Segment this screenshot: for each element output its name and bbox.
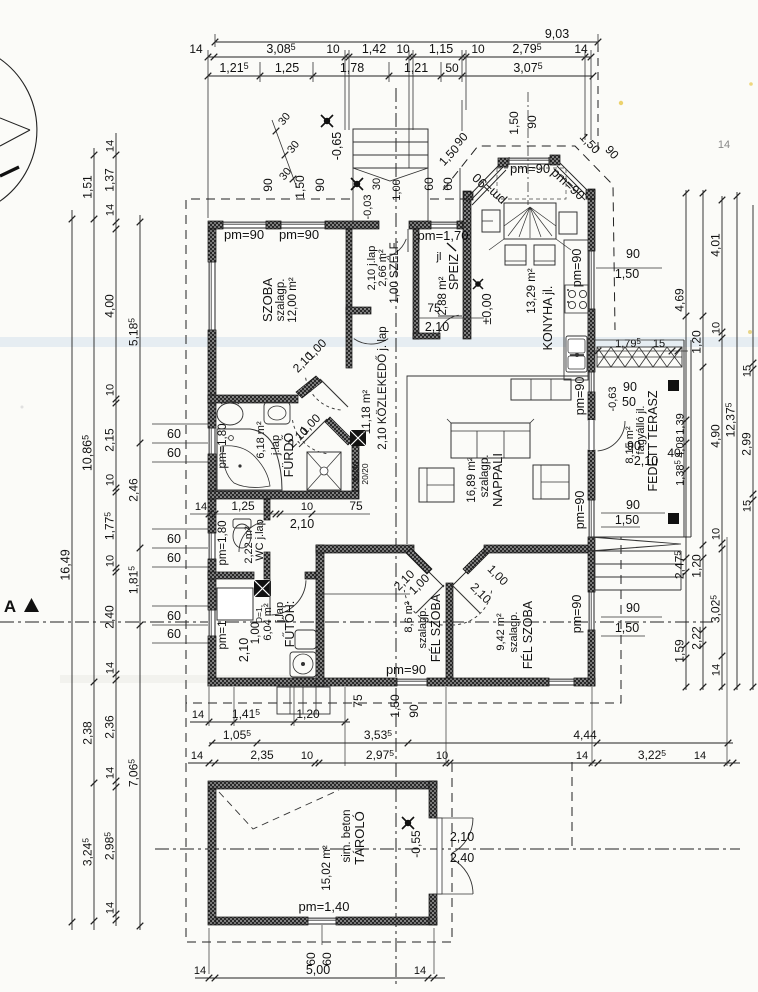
svg-text:14: 14 [195,501,207,513]
svg-text:1,39: 1,39 [675,413,687,434]
window nappali right [588,500,595,537]
wall furdo bottom [208,491,359,499]
window szoba top-2 [281,221,325,229]
svg-text:10: 10 [105,555,117,567]
svg-text:14: 14 [711,664,723,676]
window storage bottom [308,917,336,925]
bay axis line [527,92,529,205]
window szoba top-1 [223,221,266,229]
door szelf-hall [354,339,388,344]
dim terasz top [595,350,688,352]
wall wc right [264,499,270,520]
svg-text:16,89 m²: 16,89 m² [466,457,478,503]
wall konyha left [463,191,471,339]
svg-text:pm=90: pm=90 [570,595,584,634]
svg-text:pm=90: pm=90 [573,491,587,530]
svg-text:90: 90 [623,380,637,394]
svg-text:10: 10 [396,42,410,56]
wall szoba bottom [208,395,298,403]
svg-text:1,59: 1,59 [673,639,687,663]
wall furdo right [352,440,359,491]
svg-text:A: A [4,597,16,616]
svg-text:2,22: 2,22 [690,626,704,650]
wall wc bottom [208,572,254,579]
svg-text:2,38: 2,38 [81,721,95,745]
nappali floor boundary [407,376,588,544]
chair bottom1 [505,245,526,265]
svg-text:2,99: 2,99 [740,432,754,456]
svg-text:2,46: 2,46 [127,478,141,502]
wall szoba corner diag [296,376,322,398]
svg-text:szalagp.: szalagp. [417,608,429,649]
svg-text:60: 60 [441,177,455,191]
svg-text:±0,00: ±0,00 [480,293,494,324]
chimney kozlekedo [350,430,366,446]
svg-text:1,20: 1,20 [690,330,704,354]
svg-text:pm=90: pm=90 [386,662,426,677]
svg-text:pm=90: pm=90 [224,227,264,242]
terasz right edge [683,340,685,537]
chain right 2 [702,190,704,690]
svg-text:1,78: 1,78 [340,61,364,75]
svg-text:4,90: 4,90 [709,424,723,448]
scan artifact streak [0,337,758,347]
flower symbol kitchen [473,279,483,289]
svg-text:14: 14 [105,204,117,216]
section line storage door [155,848,740,850]
futoh basin [295,630,316,649]
wall left [208,229,216,262]
svg-text:WC j.lap: WC j.lap [254,519,266,561]
wall futoh right [316,545,324,686]
svg-text:20/20: 20/20 [360,463,370,485]
svg-text:4,44: 4,44 [573,728,597,742]
svg-text:4,00: 4,00 [103,294,117,318]
svg-text:14: 14 [105,902,117,914]
svg-text:pm=90: pm=90 [570,249,584,288]
svg-text:1,20: 1,20 [690,554,704,578]
wall speiz left [413,229,419,339]
wall storage left [208,789,216,925]
svg-text:FEDETT TERASZ: FEDETT TERASZ [646,390,660,491]
door speiz [438,315,459,339]
north arrow lines [0,118,30,130]
bay dashed floor [497,168,566,199]
eaves dashed bay [443,146,615,330]
svg-text:14: 14 [191,750,203,762]
bay window top [509,157,549,165]
svg-text:6,18 m²: 6,18 m² [255,421,267,459]
svg-text:16,49: 16,49 [59,549,73,580]
svg-text:14: 14 [194,965,206,977]
svg-text:pm=1,80: pm=1,80 [217,520,229,565]
svg-text:30: 30 [371,178,383,190]
svg-text:TÁROLÓ: TÁROLÓ [352,811,367,864]
window konyha right [588,251,595,309]
door futoh [271,580,306,615]
exterior steps back [277,687,330,714]
window futoh left [208,610,216,636]
chair left [482,210,500,232]
door terasz arc [598,421,625,451]
eaves dashed storage right [571,762,573,849]
svg-text:10: 10 [105,384,117,396]
washing machine [217,588,253,620]
svg-text:90: 90 [627,439,641,453]
row A ext lines [208,687,210,726]
svg-text:10: 10 [711,528,723,540]
svg-text:-0,55: -0,55 [409,830,423,858]
dim row walls [208,56,591,58]
svg-text:1,00: 1,00 [250,622,262,644]
svg-text:12,375: 12,375 [724,402,738,437]
svg-text:14: 14 [694,750,706,762]
svg-text:11,18 m²: 11,18 m² [361,390,373,435]
svg-text:SZOBA: SZOBA [260,278,275,322]
svg-text:2,35: 2,35 [250,748,274,762]
svg-text:10: 10 [105,474,117,486]
svg-text:pm=1,70: pm=1,70 [418,228,469,243]
wall top (szoba) [208,221,223,229]
window furdo left [208,428,216,454]
bay window left diag [466,164,506,205]
svg-text:2,15: 2,15 [103,428,117,452]
bay post right [586,190,595,199]
svg-text:2,10: 2,10 [290,517,314,531]
terasz post top [668,380,679,391]
wall felszoba diag left [406,548,432,574]
wall felszoba diag right [463,548,489,574]
door nappali-terasz [588,420,595,450]
svg-text:10: 10 [326,42,340,56]
svg-text:9,03: 9,03 [545,27,569,41]
svg-text:pm=1,40: pm=1,40 [299,899,350,914]
svg-text:1,20: 1,20 [296,707,320,721]
chain right 5 [752,205,754,690]
wall szelf bottom [346,307,371,314]
wall futoh top stub [305,572,316,579]
svg-text:15: 15 [742,365,754,377]
row C ext lines [445,687,447,766]
svg-text:8,6 m²: 8,6 m² [403,601,415,633]
shower [307,452,341,490]
svg-text:9,42 m²: 9,42 m² [495,613,507,651]
svg-text:-0,03: -0,03 [362,194,374,219]
kitchen sink [566,336,587,372]
svg-text:60: 60 [167,427,181,441]
svg-text:1,50: 1,50 [615,267,639,281]
svg-text:50: 50 [445,61,459,75]
svg-text:14: 14 [576,750,588,762]
svg-text:2,10: 2,10 [634,454,658,468]
kitchen stove [565,285,588,313]
svg-text:50: 50 [622,395,636,409]
svg-text:2,40: 2,40 [103,605,117,629]
sofa [451,423,530,458]
chair bottom2 [534,245,555,265]
wall felszoba top left [316,545,414,553]
terasz post bottom [668,513,679,524]
svg-text:10: 10 [711,322,723,334]
svg-text:1,50: 1,50 [507,111,521,135]
corner bathtub [217,429,282,490]
svg-text:FÉL SZOBA: FÉL SZOBA [520,600,535,669]
svg-text:10,865: 10,865 [81,435,95,471]
dashed top-right [597,44,599,150]
chain right 4 [736,192,738,690]
svg-text:15,02 m²: 15,02 m² [321,845,333,891]
chain right 3 [721,196,723,690]
svg-text:90: 90 [313,178,327,192]
svg-text:1,50: 1,50 [293,175,307,199]
wall storage bottom [216,917,308,925]
chain rooms [139,215,141,930]
svg-text:4,69: 4,69 [673,288,687,312]
window felszoba2 bottom [549,678,574,686]
svg-text:14: 14 [189,42,203,56]
svg-text:14: 14 [718,139,730,151]
furdo sink oval [217,403,243,425]
svg-text:60: 60 [167,627,181,641]
dim row 9,03 [215,41,598,43]
eaves dashed storage [186,703,452,942]
wc toilet [233,524,251,548]
door entry szelf [379,239,406,258]
dim wc width [190,513,370,515]
entry steps [353,129,428,168]
svg-text:90: 90 [626,498,640,512]
furdo washbasin [264,402,290,424]
compass circle [0,58,37,202]
flower symbol storage [402,817,414,829]
chain right 1 [685,190,687,690]
svg-text:13,29 m²: 13,29 m² [526,268,538,314]
section line vertical [395,88,397,988]
svg-text:1,50: 1,50 [388,694,402,718]
chain 10,86 [93,148,95,930]
svg-text:90: 90 [407,704,421,718]
svg-text:1,00 SZÉLF.: 1,00 SZÉLF. [388,240,401,303]
bay post left [464,192,473,200]
eaves dashed right-bottom [560,537,621,703]
wall szoba right [346,229,352,368]
flower symbol 2 [351,178,363,190]
svg-text:10: 10 [301,750,313,762]
svg-text:1,50: 1,50 [615,513,639,527]
dim row C [188,762,740,764]
svg-text:4,08: 4,08 [675,436,687,457]
svg-text:1,37: 1,37 [103,168,117,192]
door furdo diag [299,419,327,447]
eaves dashed entry [430,198,463,200]
svg-text:2,66 m²: 2,66 m² [377,249,389,287]
svg-text:KONYHA jl.: KONYHA jl. [541,286,555,351]
svg-text:14: 14 [414,965,426,977]
sideboard [511,379,571,400]
dim row openings [208,75,593,77]
svg-text:1,21: 1,21 [404,61,428,75]
svg-text:2,10: 2,10 [425,320,449,334]
wall storage right [429,781,437,818]
door felszoba right [452,585,480,613]
svg-text:pm=90: pm=90 [510,161,550,176]
svg-text:-0,65: -0,65 [330,132,344,161]
svg-text:jl: jl [436,251,442,263]
chain inner fine [115,133,117,926]
svg-text:NAPPALI: NAPPALI [490,453,505,507]
dim row storage [195,977,445,979]
coffee table [533,465,569,499]
svg-text:60: 60 [167,532,181,546]
armchair [419,468,454,502]
wall furdo diag [325,417,353,445]
eaves dashed left [186,199,560,703]
kitchen counter [564,240,588,380]
svg-text:2,10: 2,10 [450,830,474,844]
svg-text:14: 14 [192,709,204,721]
svg-text:15: 15 [742,500,754,512]
window szoba left [208,262,216,330]
svg-text:60: 60 [167,609,181,623]
svg-text:2,10: 2,10 [237,638,251,662]
chair right [559,212,577,234]
wall bottom [208,678,397,686]
svg-text:90: 90 [626,247,640,261]
svg-text:75: 75 [349,499,363,513]
svg-text:-0,63: -0,63 [607,386,619,411]
window konyha right2 [588,372,595,392]
diag dim 30s [272,120,297,188]
svg-text:1,00: 1,00 [391,179,403,200]
door felszoba left [416,585,444,613]
svg-text:szalagp.: szalagp. [508,612,520,653]
storage door leaves [452,818,473,853]
svg-text:5,00: 5,00 [306,963,330,977]
flower symbol 1 [321,115,333,127]
svg-text:75: 75 [427,301,441,315]
svg-text:90: 90 [525,115,539,129]
bay post top-right [550,155,560,165]
svg-text:2,40: 2,40 [450,851,474,865]
svg-text:1,50: 1,50 [615,621,639,635]
svg-text:FÜRDŐ: FÜRDŐ [281,433,296,478]
svg-text:2,10 KÖZLEKEDŐ j. lap: 2,10 KÖZLEKEDŐ j. lap [375,326,389,449]
window felszoba right [588,592,595,630]
wall storage top [208,781,437,789]
svg-text:90: 90 [261,178,275,192]
svg-text:14: 14 [574,42,588,56]
storage dashed roof lines [219,790,339,829]
section line A-A [0,621,712,623]
svg-text:60: 60 [422,177,436,191]
chain 16,49 [71,210,73,930]
svg-text:FÉL SZOBA: FÉL SZOBA [428,593,443,662]
dim extension lines [214,34,216,47]
svg-text:12,00 m²: 12,00 m² [287,277,299,323]
svg-text:14: 14 [105,662,117,674]
dining table [504,203,556,239]
bay window right diag [554,163,591,200]
svg-text:1,42: 1,42 [362,42,386,56]
svg-text:1,25: 1,25 [275,61,299,75]
svg-text:60: 60 [167,551,181,565]
bay post top-left [498,158,508,167]
svg-text:1,15: 1,15 [429,42,453,56]
terasz steps top [597,347,682,367]
dim row B [209,742,733,744]
door wc [239,522,264,552]
svg-text:10: 10 [301,501,313,513]
wall felszoba top right [484,545,588,553]
wall right [588,189,595,251]
window wc left [208,533,216,559]
svg-text:90: 90 [626,601,640,615]
svg-text:SPEIZ: SPEIZ [447,254,461,290]
door szoba diag [320,379,348,407]
svg-text:14: 14 [105,140,117,152]
svg-text:75: 75 [351,694,365,708]
svg-text:2,36: 2,36 [103,715,117,739]
svg-text:1,25: 1,25 [231,499,255,513]
svg-text:szalagp.: szalagp. [275,279,287,322]
window felszoba1 bottom [397,678,427,686]
svg-text:10: 10 [471,42,485,56]
wall speiz bottom [413,333,440,339]
wall felszoba mid [446,583,453,678]
svg-text:pm=90: pm=90 [573,377,587,416]
svg-text:1,51: 1,51 [81,175,95,199]
svg-text:4,01: 4,01 [709,233,723,257]
terasz steps bottom [594,551,681,590]
dim row A [190,721,350,723]
svg-text:14: 14 [105,767,117,779]
svg-text:60: 60 [167,446,181,460]
svg-text:pm=90: pm=90 [279,227,319,242]
futoh boiler [290,652,316,677]
svg-text:6,04 m²: 6,04 m² [262,603,274,641]
window speiz top [431,221,457,229]
chimney wc [254,580,271,597]
storage ext lines [208,928,210,974]
